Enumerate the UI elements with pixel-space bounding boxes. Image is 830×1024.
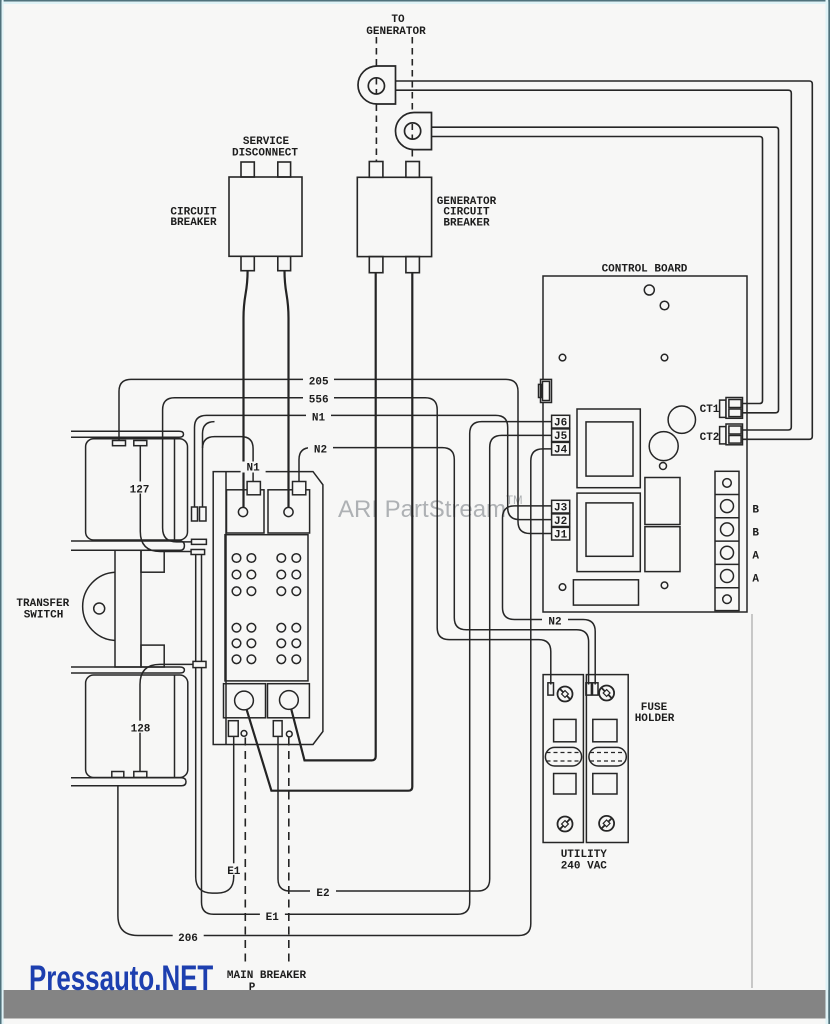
- gray footer bar: [0, 990, 830, 1019]
- plug contact lower: [193, 661, 206, 667]
- svg-text:TRANSFER: TRANSFER: [16, 598, 69, 610]
- service breaker wire left: [244, 271, 248, 508]
- svg-text:BREAKER: BREAKER: [443, 217, 490, 229]
- contactor N2 terminal: [293, 482, 306, 495]
- coil 128 terminal a: [112, 772, 124, 778]
- fuse unit right: [586, 675, 628, 843]
- coil 128 terminal b: [134, 772, 147, 778]
- switch mid bar: [71, 541, 184, 550]
- contactor N1 terminal: [247, 482, 260, 495]
- wire N2: contactor N2 terminal to right fuse terminal1: [299, 448, 589, 685]
- svg-text:128: 128: [131, 724, 151, 736]
- svg-text:ARI PartStream: ARI PartStream: [338, 496, 506, 523]
- coil 127 terminal b: [134, 441, 147, 446]
- svg-text:127: 127: [130, 485, 150, 497]
- service breaker top terminals: [241, 162, 254, 177]
- svg-text:206: 206: [178, 933, 198, 945]
- contactor bottom-left section: [224, 684, 266, 718]
- J6 left branch curve: [203, 422, 215, 448]
- svg-text:CT2: CT2: [700, 432, 720, 444]
- watermark ARI PartStream: [338, 495, 523, 523]
- CT2 connector: [720, 427, 726, 444]
- generator breaker top terminals: [369, 162, 383, 178]
- contact grid circles: [232, 554, 300, 664]
- svg-text:UTILITY: UTILITY: [561, 849, 608, 861]
- board outline: [543, 276, 747, 612]
- coil 127 terminal a: [113, 441, 126, 446]
- big capacitor circles: [668, 406, 695, 433]
- mid component rects: [645, 478, 680, 525]
- fuse unit left: [543, 675, 583, 843]
- wire J3 to N2 to right fuse terminal2: [503, 506, 596, 685]
- switch lower-mid bar: [71, 667, 184, 673]
- svg-text:MAIN BREAKER: MAIN BREAKER: [227, 970, 307, 982]
- dash inside lug1 hole: [375, 79, 377, 94]
- bottom component rect: [573, 580, 638, 605]
- service breaker body: [229, 177, 302, 256]
- J4 connector: [552, 442, 570, 455]
- generator breaker body: [357, 177, 431, 256]
- board holes: [644, 285, 654, 295]
- generator breaker wire 2: [247, 273, 413, 791]
- svg-text:BREAKER: BREAKER: [170, 217, 217, 229]
- top right CT wires: [396, 81, 813, 439]
- switch shaft: [115, 550, 141, 667]
- wire J6 feed / E1 loop via right vertical: [202, 422, 552, 915]
- svg-text:J4: J4: [554, 444, 568, 456]
- svg-text:J6: J6: [554, 417, 567, 429]
- svg-text:SWITCH: SWITCH: [24, 609, 64, 621]
- svg-text:SERVICE: SERVICE: [243, 136, 290, 148]
- contactor bottom terminal right: [273, 721, 282, 737]
- generator breaker wire 1: [291, 273, 375, 761]
- svg-text:N1: N1: [312, 412, 326, 424]
- wire J4 down to 206 to coil128 term1: [118, 449, 552, 936]
- wire lug1 line a to CT2 pin b: [396, 81, 813, 439]
- svg-text:205: 205: [309, 376, 329, 388]
- relay K1: [577, 409, 640, 488]
- wire lug1 line b to CT2 pin a: [396, 90, 792, 430]
- dashed main breaker line 2: [288, 738, 290, 964]
- small link wire plug pin2 up over to contactor N1 terminal: [203, 437, 254, 507]
- dashed lead to generator lug1: [375, 37, 377, 66]
- wire label background boxes: [126, 374, 568, 942]
- svg-text:240 VAC: 240 VAC: [561, 861, 608, 873]
- wire lug2 line b to CT1 pin a: [432, 137, 763, 404]
- coil 127 winding wire to plug contact2: [140, 446, 191, 552]
- terminal strip: [715, 471, 739, 610]
- shaft bracket lower: [141, 645, 164, 667]
- J3 connector: [552, 500, 570, 513]
- CT1 connector: [720, 400, 726, 417]
- coil 128 winding wire from plug to term2: [140, 664, 193, 771]
- shaft bracket upper: [141, 550, 164, 572]
- svg-text:FUSE: FUSE: [641, 702, 668, 714]
- svg-text:GENERATOR: GENERATOR: [366, 26, 426, 38]
- svg-text:N1: N1: [246, 463, 260, 475]
- contactor bottom terminal left: [228, 721, 238, 737]
- wire E1 upper U loop: [196, 555, 234, 894]
- coil 127 body: [86, 439, 188, 540]
- J2 connector: [552, 514, 570, 527]
- contactor bottom-right section: [268, 684, 310, 718]
- lug 1: [358, 66, 396, 104]
- svg-text:A: A: [752, 551, 759, 563]
- relay K2: [577, 493, 640, 571]
- svg-text:E2: E2: [316, 888, 329, 900]
- plug contact mid2: [191, 550, 205, 555]
- svg-text:J2: J2: [554, 516, 567, 528]
- plug contact mid1: [192, 539, 207, 544]
- dashed wires: [245, 37, 412, 963]
- terminal strip drop wire (faint): [751, 614, 753, 988]
- switch bottom bar: [71, 778, 186, 786]
- lug 2: [395, 113, 431, 150]
- shaft semicircle: [83, 572, 115, 640]
- contactor outline: [213, 472, 323, 745]
- J6 connector: [552, 415, 570, 428]
- svg-text:E1: E1: [227, 866, 241, 878]
- J5 connector: [552, 429, 570, 442]
- board left edge connector: [541, 379, 552, 402]
- dashed lead to generator lug2: [411, 37, 413, 112]
- generator breaker bottom terminals: [369, 257, 383, 273]
- wire lug2 line a to CT1 pin b: [432, 127, 779, 413]
- dashed main breaker line 1: [244, 738, 246, 964]
- wire 556: plug contact to left fuse terminal: [163, 398, 551, 685]
- svg-text:E1: E1: [266, 912, 280, 924]
- svg-text:A: A: [752, 574, 759, 586]
- contactor contact grid: [225, 535, 308, 681]
- contactor section top-left: [227, 490, 265, 533]
- thick breaker wires: [244, 271, 413, 791]
- svg-text:TO: TO: [391, 14, 405, 26]
- coil 128 body: [86, 675, 188, 778]
- svg-text:CONTROL BOARD: CONTROL BOARD: [602, 263, 688, 275]
- dash inside lug2 hole: [411, 124, 413, 139]
- wire 205: coil127 term1 to J1: [119, 379, 552, 533]
- svg-text:N2: N2: [314, 445, 327, 457]
- svg-text:N2: N2: [548, 616, 561, 628]
- svg-text:556: 556: [309, 395, 329, 407]
- svg-text:J5: J5: [554, 431, 568, 443]
- svg-text:HOLDER: HOLDER: [635, 713, 675, 725]
- shaft pivot circle: [94, 603, 105, 614]
- service breaker wire right: [285, 271, 289, 508]
- switch top bar: [71, 431, 184, 437]
- svg-text:DISCONNECT: DISCONNECT: [232, 148, 298, 160]
- svg-text:J3: J3: [554, 502, 568, 514]
- svg-text:B: B: [752, 528, 759, 540]
- J1 connector: [552, 527, 570, 540]
- svg-text:J1: J1: [554, 529, 568, 541]
- contactor section top-right: [268, 490, 310, 533]
- wire N1: plug pin1 to J2: [195, 415, 552, 519]
- plug pin contacts (vertical pair): [192, 507, 198, 521]
- svg-text:CT1: CT1: [700, 404, 720, 416]
- svg-text:B: B: [752, 505, 759, 517]
- service breaker bottom terminals: [241, 256, 254, 270]
- wire J5 to E2 to contactor: [278, 435, 552, 891]
- page border: [0, 0, 830, 2]
- svg-text:Pressauto.NET: Pressauto.NET: [29, 958, 213, 998]
